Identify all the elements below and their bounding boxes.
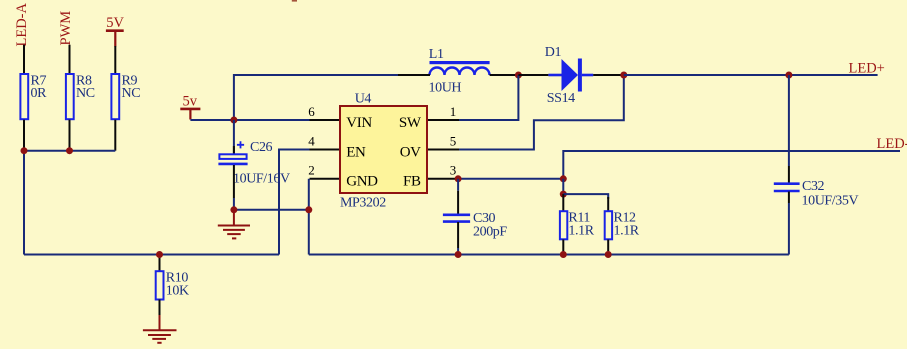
junction C30 bottom — [455, 251, 462, 258]
svg-text:SW: SW — [399, 115, 422, 131]
svg-text:FB: FB — [403, 174, 421, 190]
wire C26 lower lead — [233, 165, 235, 198]
wire C26 upper lead — [233, 120, 235, 154]
wire pin2 GND down — [308, 179, 310, 255]
svg-text:MP3202: MP3202 — [340, 195, 386, 210]
junction C26 ground — [230, 206, 237, 213]
wire R11 bottom lead — [562, 240, 564, 252]
svg-text:NC: NC — [122, 86, 141, 101]
svg-text:5V: 5V — [106, 15, 124, 31]
wire 5v to VIN — [190, 119, 309, 121]
svg-text:EN: EN — [346, 144, 366, 160]
svg-text:200pF: 200pF — [473, 224, 507, 239]
svg-text:6: 6 — [308, 104, 315, 119]
pin 6 VIN stub — [310, 119, 340, 121]
wire R12 bottom lead — [607, 240, 609, 252]
svg-text:10UF/35V: 10UF/35V — [802, 193, 859, 208]
inductor L1 — [429, 47, 490, 95]
wire left vertical down — [23, 151, 25, 255]
wire R9 top lead — [114, 46, 116, 74]
resistor R9 — [111, 74, 119, 119]
wire R10 bottom lead — [159, 300, 161, 316]
pin 4 EN stub — [310, 149, 340, 151]
resistor R8 — [66, 74, 74, 119]
wire FB to sense node — [458, 178, 563, 180]
svg-text:L1: L1 — [429, 47, 444, 62]
capacitor C32 — [774, 179, 859, 208]
svg-text:1: 1 — [450, 104, 457, 119]
junction D1 cathode — [620, 72, 627, 79]
pin 5 OV stub — [428, 149, 459, 151]
diode D1 — [545, 45, 593, 106]
pin 3 FB stub — [428, 178, 459, 180]
resistor R10 — [156, 271, 164, 299]
svg-text:4: 4 — [308, 133, 315, 148]
pin 1 SW stub — [428, 119, 459, 121]
svg-text:C32: C32 — [802, 179, 825, 194]
wire R12 top lead — [607, 197, 609, 211]
wire resistor-bottom row — [24, 150, 115, 152]
svg-text:LED-: LED- — [877, 136, 907, 152]
svg-text:2: 2 — [308, 163, 315, 178]
resistor R11 — [560, 211, 567, 239]
svg-text:SS14: SS14 — [547, 91, 575, 106]
svg-text:NC: NC — [76, 86, 95, 101]
svg-text:PWM: PWM — [58, 11, 74, 46]
junction FB/C30 — [455, 175, 462, 182]
wire R12 branch — [563, 194, 608, 199]
junction R7 bottom — [21, 147, 28, 154]
wire D1 anode lead — [518, 74, 548, 76]
ground below R10 — [143, 315, 177, 343]
svg-text:1.1R: 1.1R — [568, 224, 594, 239]
wire gnd link C26 to pin2 — [234, 209, 309, 211]
svg-text:VIN: VIN — [346, 115, 372, 131]
svg-text:10K: 10K — [166, 284, 189, 299]
junction sense node upper — [560, 175, 567, 182]
svg-text:GND: GND — [346, 174, 378, 190]
svg-text:LED-A: LED-A — [14, 2, 30, 46]
wire LED+ rail — [624, 74, 878, 76]
wire C30 upper lead — [457, 179, 459, 191]
junction R12 bottom — [605, 251, 612, 258]
wire C32 upper lead — [788, 75, 790, 166]
pin 2 GND stub — [310, 178, 340, 180]
stray clipped mark top edge — [292, 0, 297, 2]
svg-text:U4: U4 — [355, 91, 372, 106]
junction 5v/VIN tap — [230, 117, 237, 124]
svg-text:LED+: LED+ — [849, 61, 885, 77]
wire C30 lower lead — [457, 222, 459, 248]
junction C32 tap — [785, 72, 792, 79]
wire SW riser — [459, 75, 518, 120]
junction pin2 gnd — [305, 206, 312, 213]
junction R10 top — [156, 251, 163, 258]
wire R9 bottom lead — [114, 120, 116, 151]
ground below C26 — [218, 213, 250, 238]
svg-text:5v: 5v — [183, 93, 198, 109]
svg-text:3: 3 — [450, 163, 457, 178]
wire D1 cathode lead — [593, 74, 624, 76]
svg-text:0R: 0R — [31, 86, 48, 101]
junction sense node lower — [560, 191, 567, 198]
wire R10 top lead — [159, 255, 161, 272]
svg-text:5: 5 — [450, 133, 457, 148]
wire R8 bottom lead — [69, 120, 71, 151]
junction R11 bottom — [560, 251, 567, 258]
wire L1 left lead — [398, 74, 430, 76]
svg-text:D1: D1 — [545, 45, 562, 60]
wire R7 bottom lead — [23, 120, 25, 151]
power symbol 5v — [180, 109, 200, 120]
wire R7 top lead — [23, 45, 25, 74]
svg-text:10UF/16V: 10UF/16V — [233, 171, 290, 186]
svg-text:10UH: 10UH — [429, 80, 462, 95]
junction R8 bottom — [66, 147, 73, 154]
capacitor C30 — [443, 211, 508, 239]
capacitor C26 — [218, 140, 290, 187]
wire LED- rail — [563, 151, 900, 179]
wire GND rail bottom — [309, 254, 789, 256]
wire C32 lower lead — [788, 192, 790, 204]
svg-text:1.1R: 1.1R — [614, 224, 640, 239]
wire R8 top lead — [69, 45, 71, 74]
wire EN riser — [279, 150, 310, 255]
resistor R7 — [20, 74, 28, 119]
wire L1 right lead — [490, 74, 519, 76]
svg-text:C26: C26 — [250, 140, 273, 155]
wire EN rail bottom-left — [24, 254, 279, 256]
wire OV route — [459, 75, 624, 150]
wire top rail from 5V node — [234, 75, 398, 120]
svg-text:OV: OV — [400, 144, 421, 160]
power symbol 5V — [106, 31, 124, 47]
wire R11 top lead — [562, 194, 564, 211]
resistor R12 — [605, 211, 612, 239]
wire sense node drop — [562, 179, 564, 194]
IC U4 MP3202 — [340, 106, 427, 193]
junction L1/D1/SW — [515, 72, 522, 79]
